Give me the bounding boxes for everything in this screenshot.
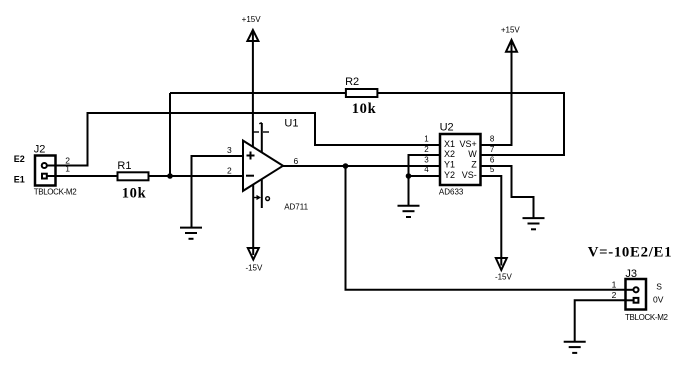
svg-text:AD633: AD633 [439,188,464,197]
svg-text:6: 6 [294,156,299,166]
wire feedback vertical at x=170 [169,93,171,176]
svg-text:X2: X2 [444,149,455,159]
svg-text:1: 1 [612,279,617,289]
ground (op-amp non-inverting input) [180,228,202,239]
wire U2 Z to ground [481,166,534,218]
wire output down to J3 pin1 [346,166,634,290]
svg-text:6: 6 [490,155,495,164]
svg-text:VS+: VS+ [460,139,477,149]
svg-text:4: 4 [424,165,429,174]
svg-text:Y1: Y1 [444,160,455,170]
wire J3 pin2 to ground [575,300,633,341]
power +15V (op-amp supply) [242,15,262,41]
svg-text:3: 3 [424,155,429,164]
connector J2 [34,143,78,196]
connector J3 [612,268,669,322]
op-amp U1 AD711 [227,118,309,212]
wire U2 VS+ to +15V [481,52,512,145]
power -15V (U2 VS-) [495,258,513,282]
power +15V (U2 VS+) [501,26,521,52]
svg-text:U1: U1 [284,118,298,130]
wire R1 to op-amp inverting input [148,175,243,177]
svg-text:E2: E2 [14,154,25,164]
svg-text:V=-10E2/E1: V=-10E2/E1 [588,245,673,261]
svg-text:0V: 0V [653,295,664,305]
svg-text:8: 8 [490,135,495,144]
wire op-amp output to U2 Y1 [283,165,440,167]
svg-text:Z: Z [471,160,477,170]
junction dot at R1 / feedback [167,173,173,179]
svg-text:J3: J3 [625,268,637,280]
svg-text:2: 2 [424,145,429,154]
svg-text:+15V: +15V [242,15,262,24]
svg-text:AD711: AD711 [284,203,308,212]
svg-text:U2: U2 [440,122,454,134]
svg-text:TBLOCK-M2: TBLOCK-M2 [34,187,78,196]
ground (U2 X2/Y2) [398,206,420,217]
svg-text:+15V: +15V [501,26,521,35]
svg-text:10k: 10k [352,101,377,117]
op-amp V- pin stub (pin 4) [253,180,269,208]
svg-text:10k: 10k [122,185,147,201]
resistor R2 [345,76,377,117]
junction dot at op-amp output [343,163,349,169]
wire +15V down to op-amp V+ [252,41,254,147]
svg-text:J2: J2 [34,143,46,155]
node E2 label [14,154,25,164]
svg-text:X1: X1 [444,139,455,149]
node E1 label [14,174,25,184]
multiplier U2 AD633 [424,122,495,197]
junction dot at X2/Y2 ground [406,173,412,179]
svg-text:Y2: Y2 [444,170,455,180]
wire E1: J2 pin1 to R1 [48,175,118,177]
svg-text:R1: R1 [117,160,131,172]
ground (U2 Z pin) [523,218,545,229]
svg-text:TBLOCK-M2: TBLOCK-M2 [625,313,669,322]
wire E2 net: J2 pin2 up and across to U2 X1 [48,113,440,166]
op-amp V+ pin stub (pin 7) [253,123,269,153]
svg-text:E1: E1 [14,174,25,184]
svg-text:W: W [468,149,477,159]
svg-text:VS-: VS- [462,170,477,180]
wire U2 X2 to ground stem [409,155,441,205]
svg-text:3: 3 [227,145,232,155]
resistor R1 [117,160,148,202]
wire R2 to U2 W pin [377,93,564,155]
svg-text:5: 5 [490,165,495,174]
svg-text:2: 2 [227,165,232,175]
svg-text:-15V: -15V [245,263,263,272]
svg-text:7: 7 [490,145,495,154]
svg-text:R2: R2 [345,76,359,88]
svg-text:1: 1 [65,163,70,173]
power -15V (op-amp supply) [245,248,263,272]
svg-text:2: 2 [612,290,617,300]
wire U2 VS- to -15V [481,176,502,259]
svg-text:-15V: -15V [495,273,513,282]
wire U2 Y2 to ground stem [409,175,441,177]
svg-text:S: S [656,281,662,291]
output formula label V=-10E2/E1 [588,245,673,261]
wire op-amp non-inverting input to ground [192,156,244,227]
wire op-amp V- down to -15V [252,185,254,254]
wire feedback top to R2 [170,92,346,94]
svg-text:1: 1 [424,135,429,144]
ground (J3 pin2 0V) [564,342,586,353]
